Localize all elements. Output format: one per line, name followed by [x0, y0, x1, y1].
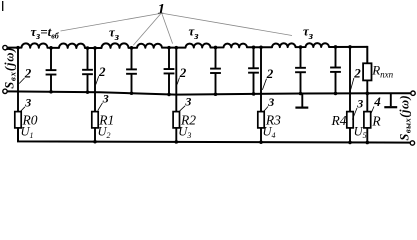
svg-text:τз=tвб: τз=tвб: [31, 24, 60, 42]
wire: R2 lower lead: [175, 128, 177, 142]
svg-text:R: R: [371, 114, 381, 129]
capacitor C8: [330, 47, 341, 93]
output terminal top: [411, 91, 415, 95]
wire: tap 3 from delay line down to weighting resistor: [260, 47, 262, 111]
svg-text:4: 4: [373, 94, 381, 109]
svg-text:2: 2: [98, 64, 106, 79]
wire: R0 lower lead: [17, 128, 19, 141]
junction dots on middle bus: [49, 90, 369, 96]
svg-text:3: 3: [102, 91, 109, 105]
resistor Rpxp (absorbing terminator): [363, 63, 371, 80]
wire: tap 2 from delay line down to weighting resistor: [175, 48, 177, 112]
wire: load resistor R upper lead: [366, 93, 368, 111]
resistor R2: [173, 112, 179, 128]
capacitor C2: [82, 48, 93, 92]
svg-text:Sвых(jω): Sвых(jω): [398, 95, 413, 141]
resistor R3: [258, 112, 264, 128]
resistor R4: [347, 112, 353, 128]
svg-text:2: 2: [266, 66, 274, 81]
svg-text:Rпхп: Rпхп: [371, 63, 393, 80]
capacitor C7: [295, 47, 306, 93]
input terminal top: [3, 45, 7, 49]
svg-text:2: 2: [179, 65, 187, 80]
svg-text:1: 1: [158, 2, 166, 18]
capacitor C3: [126, 48, 137, 93]
wire: bottom summing bus: [18, 128, 410, 143]
svg-text:τз: τз: [109, 25, 120, 44]
wire: middle ground bus: [7, 91, 410, 94]
ground symbol on middle bus (left): [295, 94, 308, 108]
resistor R1: [92, 112, 98, 128]
svg-text:Sвх(jω): Sвх(jω): [2, 47, 17, 89]
svg-text:3: 3: [267, 95, 274, 109]
svg-text:3: 3: [356, 97, 363, 111]
svg-text:3: 3: [24, 95, 31, 109]
wire: tap 1 from delay line down to weighting resistor: [94, 48, 96, 112]
ground symbol on middle bus (right): [384, 93, 397, 107]
scan artifact tick top-left: [2, 1, 4, 11]
svg-text:R4: R4: [331, 113, 347, 128]
wire: tap 0 from delay line down to weighting resistor: [17, 48, 19, 112]
wire: tap 4 from delay line down to weighting resistor: [349, 47, 351, 112]
wire: R1 lower lead: [94, 128, 96, 142]
wire: R4 lower lead: [349, 128, 351, 143]
input terminal bottom: [3, 89, 7, 93]
wire: Rpxp lower lead to ground bus: [366, 80, 368, 93]
svg-text:τз: τз: [303, 24, 314, 43]
capacitor C6: [248, 47, 259, 94]
resistor R0: [15, 112, 21, 128]
leader lines from label 1: [61, 14, 293, 46]
wire: delay-line end down to Rpxp: [366, 46, 368, 63]
output terminal bottom: [410, 141, 414, 145]
capacitor C1: [46, 48, 57, 92]
svg-text:2: 2: [24, 66, 32, 81]
capacitor C4: [164, 48, 175, 95]
svg-text:τз: τз: [189, 24, 200, 43]
junction dots on top bus: [16, 45, 352, 50]
resistor R (load): [364, 112, 371, 128]
wire: R3 lower lead: [260, 128, 262, 142]
capacitor C5: [210, 47, 221, 94]
svg-text:2: 2: [353, 66, 361, 81]
junction dots on bottom bus: [93, 140, 369, 144]
wire: top delay-line bus with inductor coils L1-L8: [7, 43, 367, 48]
svg-text:3: 3: [184, 94, 191, 108]
wire: R lower lead to summing bus: [366, 128, 368, 143]
